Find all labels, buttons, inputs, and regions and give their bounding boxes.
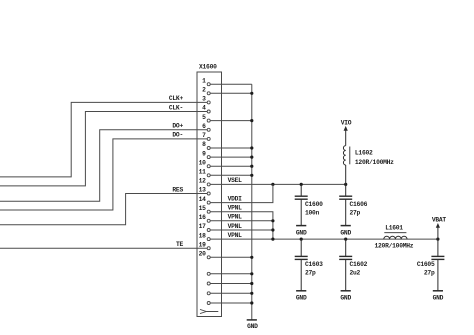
svg-text:L1601: L1601 bbox=[385, 225, 403, 232]
svg-text:X1600: X1600 bbox=[199, 63, 217, 70]
svg-text:6: 6 bbox=[202, 123, 206, 130]
wire shield pin 1 to GND bus bbox=[209, 273, 252, 275]
pin 9 terminal bbox=[207, 156, 210, 159]
svg-text:120R/100MHz: 120R/100MHz bbox=[355, 159, 394, 166]
svg-text:2: 2 bbox=[202, 87, 206, 94]
junction VPNL/C1605/VBAT bbox=[436, 238, 439, 241]
connector X1600 body bbox=[197, 72, 222, 317]
svg-text:VPNL: VPNL bbox=[228, 232, 243, 239]
wire VBAT arrow stem bbox=[437, 227, 439, 239]
capacitor C1606 bbox=[345, 184, 347, 196]
pin 18 terminal bbox=[207, 238, 210, 241]
junction pin 8 / GND bus bbox=[250, 146, 253, 149]
svg-text:3: 3 bbox=[202, 96, 206, 103]
ground symbol below GND bus bbox=[247, 319, 257, 321]
svg-text:27p: 27p bbox=[305, 270, 316, 277]
wire VPNL: pin 15 to tie bbox=[209, 212, 273, 239]
inductor L1601 bbox=[384, 236, 407, 239]
svg-text:11: 11 bbox=[199, 169, 207, 176]
junction VPNL tie pin 18 bbox=[271, 238, 274, 241]
svg-text:15: 15 bbox=[199, 205, 207, 212]
wire VDDI net: pin 14 up to VSEL wire bbox=[209, 184, 273, 202]
svg-text:7: 7 bbox=[202, 132, 206, 139]
junction shield pin 2 / GND bus bbox=[250, 282, 253, 285]
svg-text:VSEL: VSEL bbox=[228, 177, 243, 184]
pin 17 terminal bbox=[207, 229, 210, 232]
svg-text:VPNL: VPNL bbox=[228, 205, 243, 212]
junction VPNL tie pin 17 bbox=[271, 228, 274, 231]
junction VSEL/VDDI tie bbox=[271, 183, 274, 186]
pin 5 terminal bbox=[207, 119, 210, 122]
svg-text:GND: GND bbox=[296, 229, 307, 236]
svg-text:RES: RES bbox=[172, 186, 183, 193]
wire pin 5 to GND bus bbox=[209, 120, 252, 122]
capacitor C1602 bbox=[345, 239, 347, 256]
junction pin 2 / GND bus bbox=[250, 92, 253, 95]
power symbol VBAT bbox=[436, 223, 440, 228]
svg-text:VPNL: VPNL bbox=[228, 223, 243, 230]
svg-text:4: 4 bbox=[202, 105, 206, 112]
pin 16 terminal bbox=[207, 219, 210, 222]
junction VPNL/C1602 bbox=[344, 238, 347, 241]
pin 19 terminal bbox=[207, 247, 210, 250]
wire CLK+ from left edge to pin 3 bbox=[0, 102, 209, 176]
capacitor C1600 bbox=[300, 184, 302, 196]
ground below C1600 bbox=[296, 225, 306, 227]
pin 20 terminal bbox=[207, 256, 210, 259]
pin 4 terminal bbox=[207, 110, 210, 113]
wire CLK- from left edge to pin 4 bbox=[0, 112, 209, 186]
svg-text:VBAT: VBAT bbox=[432, 216, 447, 223]
junction pin 5 / GND bus bbox=[250, 119, 253, 122]
connector shield symbol bbox=[200, 309, 218, 313]
svg-text:19: 19 bbox=[199, 241, 207, 248]
svg-text:9: 9 bbox=[202, 150, 206, 157]
junction VPNL tie pin 16 bbox=[271, 219, 274, 222]
svg-text:17: 17 bbox=[199, 223, 207, 230]
pin 11 terminal bbox=[207, 174, 210, 177]
inductor L1602 bbox=[345, 165, 347, 184]
svg-text:GND: GND bbox=[340, 229, 351, 236]
capacitor C1605 bbox=[437, 239, 439, 256]
svg-text:C1603: C1603 bbox=[305, 261, 323, 268]
ground below C1606 bbox=[341, 225, 351, 227]
wire pin 10 to GND bus bbox=[209, 165, 252, 167]
pin 10 terminal bbox=[207, 165, 210, 168]
junction shield pin 3 / GND bus bbox=[250, 292, 253, 295]
shield pin terminal 4 bbox=[207, 302, 210, 305]
junction pin 20 / GND bus bbox=[250, 256, 253, 259]
wire pin 2 to GND bus bbox=[209, 92, 252, 94]
svg-text:120R/100MHz: 120R/100MHz bbox=[375, 242, 414, 249]
wire DO- from left edge to pin 7 bbox=[0, 139, 209, 210]
svg-text:100n: 100n bbox=[305, 209, 320, 216]
shield pin terminal 2 bbox=[207, 282, 210, 285]
svg-text:20: 20 bbox=[199, 251, 207, 258]
svg-text:DO-: DO- bbox=[172, 132, 183, 139]
wire TE from left edge to pin 19 bbox=[0, 247, 209, 249]
pin 15 terminal bbox=[207, 210, 210, 213]
pin 13 terminal bbox=[207, 192, 210, 195]
svg-text:14: 14 bbox=[199, 196, 207, 203]
wire L1602 to VIO arrow bbox=[345, 130, 347, 146]
GND bus vertical bbox=[251, 84, 253, 320]
wire RES from left edge to pin 13 bbox=[0, 194, 209, 225]
wire pin 9 to GND bus bbox=[209, 156, 252, 158]
wire DO+ from left edge to pin 6 bbox=[0, 130, 209, 201]
svg-text:L1602: L1602 bbox=[355, 149, 373, 156]
shield pin terminal 3 bbox=[207, 292, 210, 295]
capacitor C1603 bbox=[300, 239, 302, 256]
junction pin 10 / GND bus bbox=[250, 165, 253, 168]
svg-text:16: 16 bbox=[199, 214, 207, 221]
junction shield pin 1 / GND bus bbox=[250, 272, 253, 275]
pin 3 terminal bbox=[207, 101, 210, 104]
svg-text:12: 12 bbox=[199, 178, 207, 185]
wire pin 8 to GND bus bbox=[209, 147, 252, 149]
junction pin 11 / GND bus bbox=[250, 174, 253, 177]
junction VSEL/L1602/C1606 bbox=[344, 183, 347, 186]
svg-text:VDDI: VDDI bbox=[228, 195, 243, 202]
svg-text:8: 8 bbox=[202, 141, 206, 148]
pin 14 terminal bbox=[207, 201, 210, 204]
shield pin terminal 1 bbox=[207, 272, 210, 275]
ground below C1602 bbox=[341, 290, 351, 292]
svg-text:10: 10 bbox=[199, 159, 207, 166]
pin 8 terminal bbox=[207, 147, 210, 150]
wire shield pin 4 to GND bus bbox=[209, 302, 252, 304]
svg-text:27p: 27p bbox=[424, 270, 435, 277]
junction VPNL/C1603 bbox=[300, 238, 303, 241]
svg-text:C1605: C1605 bbox=[417, 261, 435, 268]
pin 7 terminal bbox=[207, 137, 210, 140]
svg-text:VPNL: VPNL bbox=[228, 214, 243, 221]
wire pin 1 to GND bus (corner) bbox=[209, 83, 252, 85]
wire VPNL rail: pin 18 to C1605/VBAT bbox=[209, 238, 438, 240]
svg-text:GND: GND bbox=[247, 323, 258, 330]
svg-text:GND: GND bbox=[296, 295, 307, 302]
wire shield pin 2 to GND bus bbox=[209, 283, 252, 285]
wire VSEL net: pin 12 to L1602/C1606 junction bbox=[209, 183, 346, 185]
pin 2 terminal bbox=[207, 92, 210, 95]
wire VPNL: pin 16 to tie bbox=[209, 220, 273, 222]
pin 6 terminal bbox=[207, 128, 210, 131]
wire pin 11 to GND bus bbox=[209, 174, 252, 176]
wire shield pin 3 to GND bus bbox=[209, 292, 252, 294]
svg-text:CLK+: CLK+ bbox=[169, 95, 184, 102]
svg-text:5: 5 bbox=[202, 114, 206, 121]
svg-text:1: 1 bbox=[202, 77, 206, 84]
svg-text:GND: GND bbox=[340, 295, 351, 302]
junction pin 9 / GND bus bbox=[250, 156, 253, 159]
junction VSEL/C1600 bbox=[300, 183, 303, 186]
svg-text:13: 13 bbox=[199, 187, 207, 194]
pin 12 terminal bbox=[207, 183, 210, 186]
svg-text:VIO: VIO bbox=[341, 120, 352, 127]
wire VPNL: pin 17 to tie bbox=[209, 229, 273, 231]
svg-text:C1600: C1600 bbox=[305, 201, 323, 208]
ground below C1603 bbox=[296, 290, 306, 292]
svg-text:DO+: DO+ bbox=[172, 123, 183, 130]
svg-text:2u2: 2u2 bbox=[350, 270, 361, 277]
power symbol VIO bbox=[344, 126, 348, 131]
svg-text:C1602: C1602 bbox=[350, 261, 368, 268]
ground below C1605 bbox=[433, 290, 443, 292]
svg-text:CLK-: CLK- bbox=[169, 104, 183, 111]
wire pin 20 to GND bus bbox=[209, 256, 252, 258]
junction shield pin 4 / GND bus bbox=[250, 301, 253, 304]
pin 1 terminal bbox=[207, 83, 210, 86]
svg-text:TE: TE bbox=[176, 241, 184, 248]
svg-text:18: 18 bbox=[199, 232, 207, 239]
svg-text:GND: GND bbox=[433, 295, 444, 302]
svg-text:C1606: C1606 bbox=[350, 201, 368, 208]
svg-text:27p: 27p bbox=[350, 209, 361, 216]
